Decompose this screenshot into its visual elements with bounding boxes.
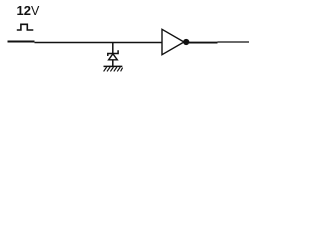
- wire junction stub down to zener: [112, 42, 114, 53]
- voltage source V1 value label 12V: [17, 3, 40, 18]
- inverter U1 output bubble (filled): [183, 39, 189, 45]
- output wire (left thick segment): [189, 42, 218, 44]
- wire from zener anode to ground: [112, 60, 114, 67]
- ground: [104, 66, 123, 71]
- pulse waveform symbol: [17, 24, 34, 30]
- wire from source (left segment): [8, 41, 35, 43]
- svg-text:12V: 12V: [17, 3, 40, 18]
- inverter U1 triangle: [162, 29, 184, 54]
- wire from source to inverter input: [35, 42, 163, 44]
- zener diode D1 cathode bar: [108, 50, 118, 56]
- zener diode D1 anode triangle: [109, 54, 118, 60]
- output wire (right segment): [218, 41, 250, 43]
